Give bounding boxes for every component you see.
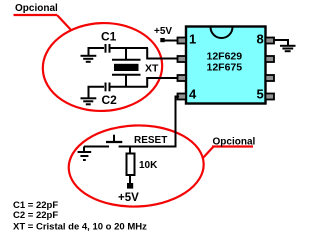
svg-text:C1: C1 [101,30,117,44]
svg-text:5: 5 [257,87,264,102]
svg-text:1: 1 [189,32,196,47]
svg-text:10K: 10K [139,160,158,171]
svg-text:Opcional: Opcional [15,3,58,14]
svg-text:XT: XT [145,63,159,75]
svg-text:4: 4 [189,87,197,102]
svg-text:RESET: RESET [134,135,167,146]
svg-text:C2 = 22pF: C2 = 22pF [13,210,58,221]
svg-text:8: 8 [257,32,264,47]
svg-text:C2: C2 [102,93,118,107]
svg-text:+5V: +5V [154,26,172,37]
svg-text:Opcional: Opcional [213,137,256,148]
svg-text:+5V: +5V [118,192,139,204]
svg-text:XT = Cristal de 4, 10 o 20 MHz: XT = Cristal de 4, 10 o 20 MHz [13,222,147,233]
svg-text:12F675: 12F675 [206,62,242,74]
